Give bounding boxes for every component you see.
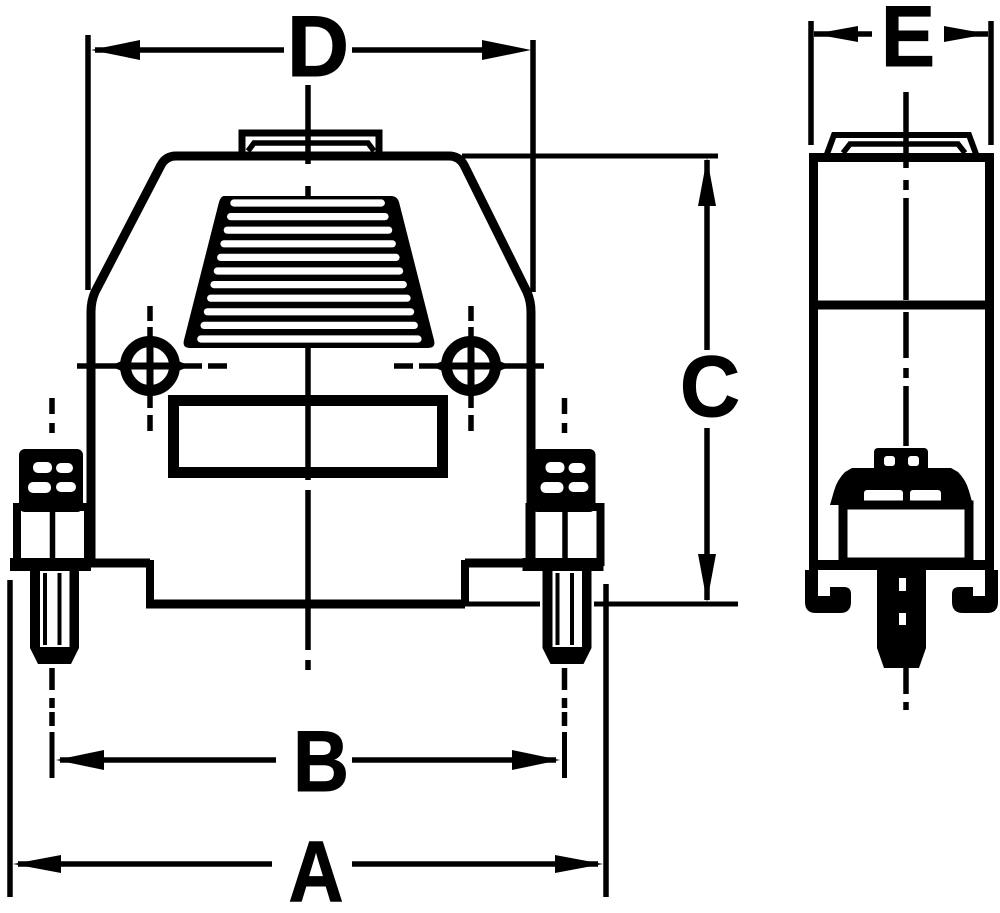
svg-text:A: A (289, 824, 344, 913)
svg-text:D: D (287, 0, 349, 95)
svg-text:E: E (881, 0, 935, 85)
svg-text:C: C (680, 339, 740, 435)
svg-text:B: B (293, 714, 349, 810)
